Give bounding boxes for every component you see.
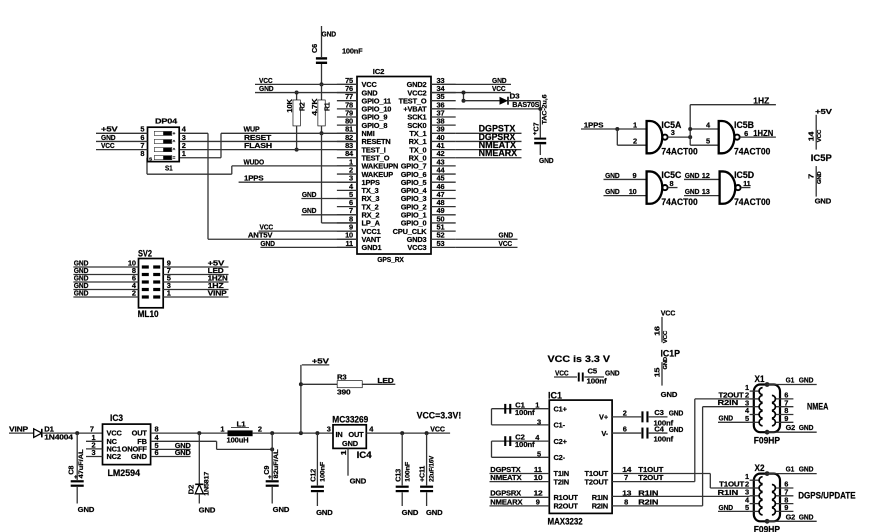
IC4 pin name IN — [336, 430, 343, 439]
svg-text:74ACT00: 74ACT00 — [734, 197, 770, 207]
svg-text:100nF: 100nF — [342, 47, 363, 56]
diode D3 — [500, 97, 509, 105]
wire/net NMEARX from IC2 pin 42 — [456, 148, 522, 158]
junction C13 tap — [400, 431, 404, 435]
svg-text:14: 14 — [806, 131, 815, 142]
pin number 14 (IC5P) — [806, 131, 815, 142]
svg-text:IC2: IC2 — [373, 67, 385, 76]
resistor R1 — [310, 98, 332, 126]
svg-text:NMEARX: NMEARX — [490, 497, 522, 506]
svg-text:S1: S1 — [165, 164, 173, 173]
svg-text:22uF/16V: 22uF/16V — [428, 455, 435, 482]
connector X1 body — [754, 385, 780, 433]
svg-text:GND: GND — [78, 505, 95, 514]
capacitor C5 — [578, 373, 584, 382]
switch S1 (DP04) body — [148, 127, 180, 161]
nand gate IC5D — [720, 171, 741, 203]
value BAS70S (D3) — [512, 100, 539, 109]
wire C1 loop — [492, 409, 550, 425]
label SV2 — [138, 248, 152, 258]
IC4 pin name OUT — [348, 430, 364, 439]
capacitor C7 — [532, 94, 549, 144]
junction VCC/diode (lower) — [462, 99, 466, 103]
wire/net GND to IC5C input 10 — [604, 187, 647, 196]
svg-text:6: 6 — [623, 424, 627, 433]
wire R2 bottom to FLASH net — [296, 126, 298, 150]
pin number 9 (IC5C) — [633, 171, 637, 180]
svg-text:VCC: VCC — [817, 129, 823, 142]
wire/net NMEATX to IC1 pin 10 — [490, 473, 550, 482]
capacitor C6 — [310, 44, 327, 64]
value 74ACT00 (IC5C) — [661, 197, 697, 207]
wire/net GND to X2 pin 5 — [718, 503, 750, 512]
svg-text:100uH: 100uH — [227, 436, 249, 445]
svg-text:9: 9 — [633, 171, 637, 180]
wire output node to IC5B input 4 — [690, 128, 719, 130]
wire/net +5V to DP04 pin 5 — [96, 125, 148, 134]
svg-text:L1: L1 — [237, 419, 246, 428]
capacitor C12 — [309, 462, 327, 492]
pin name GND (IC5P) — [817, 171, 823, 184]
wire/net T1OUT from IC1 pin 14 — [612, 465, 710, 474]
svg-text:C9: C9 — [262, 466, 271, 475]
X2 left contacts — [759, 477, 763, 515]
svg-text:X2: X2 — [755, 463, 765, 473]
wire/net 1PPS to IC2 pin 3 — [239, 174, 357, 183]
svg-text:R2IN: R2IN — [718, 398, 739, 407]
wire/net R2IN from IC1 pin 8 — [612, 497, 703, 506]
wire/net GND to SV2 pin 6 — [73, 273, 138, 282]
resistor R2 — [285, 98, 307, 125]
svg-text:LED: LED — [377, 376, 394, 385]
svg-text:GND: GND — [322, 30, 337, 39]
IC1 pin name T2OUT — [585, 477, 609, 486]
value 100nf (C2) — [515, 440, 535, 449]
wire C12 branch — [316, 433, 318, 485]
X1 shield pin G1 to GND — [765, 376, 817, 387]
wire/net RESET to IC2 pin 82 — [179, 133, 357, 142]
wire/net VCC to IC2 pin 75 — [255, 76, 357, 85]
ground GND (IC4) — [350, 476, 367, 485]
svg-text:GND: GND — [669, 409, 684, 418]
wire/net WUDO to IC2 pin 1 — [232, 157, 357, 166]
svg-text:X1: X1 — [755, 374, 765, 384]
svg-text:9: 9 — [784, 414, 788, 423]
svg-text:GND: GND — [799, 376, 814, 385]
label IC2 — [373, 67, 385, 76]
svg-text:100nf: 100nf — [587, 377, 608, 386]
IC1 pin name C1+ — [554, 404, 568, 413]
wire/net GND to IC2 pin 5 — [301, 190, 357, 199]
svg-text:2: 2 — [623, 408, 627, 417]
svg-text:+5V: +5V — [815, 107, 832, 116]
svg-text:3: 3 — [327, 425, 331, 434]
wire C11 branch — [426, 433, 428, 485]
junction VCC/diode (upper) — [462, 91, 466, 95]
ground GND (IC5P) — [815, 196, 832, 205]
value 74ACT00 (IC5B) — [734, 146, 770, 156]
svg-text:74ACT00: 74ACT00 — [734, 146, 770, 156]
svg-text:10K: 10K — [285, 98, 294, 112]
IC3 pin name ONOFF — [122, 445, 148, 454]
value 100nf (C1) — [515, 408, 535, 417]
wire D2 to ground — [198, 494, 200, 504]
capacitor C2 — [504, 436, 511, 446]
svg-text:8: 8 — [624, 497, 628, 506]
connector X2 body — [754, 474, 780, 522]
label VCC=3.3V! — [417, 411, 462, 421]
junction C9 tap — [270, 431, 274, 435]
capacitor C9 — [262, 449, 280, 486]
svg-text:9: 9 — [536, 497, 540, 506]
svg-text:13: 13 — [702, 187, 710, 196]
svg-text:R2: R2 — [298, 102, 307, 111]
X1 left contacts — [759, 388, 763, 426]
svg-text:+: + — [268, 475, 272, 481]
wire IC1P pin 15 to ground — [661, 362, 663, 386]
svg-text:11: 11 — [345, 239, 353, 248]
svg-text:74ACT00: 74ACT00 — [661, 197, 697, 207]
wire/net GND to SV2 pin 8 — [73, 266, 138, 275]
IC2 right pin stubs — [431, 84, 456, 247]
pin number 3 (IC5A output) — [671, 128, 675, 137]
IC2 right pin numbers 33-53 — [437, 76, 446, 248]
wire T2OUT up to X1 — [694, 399, 696, 482]
wire/net 1HZN from IC5B output — [740, 128, 776, 138]
pin number 1 (IC3) — [86, 433, 103, 442]
junction at IC5B input 4 row — [688, 127, 692, 131]
svg-text:C8: C8 — [67, 466, 76, 475]
junction D2 tap — [197, 431, 201, 435]
wire/net GND to IC2 pin 11 — [260, 239, 357, 248]
pin number 7 (IC3) — [90, 425, 94, 434]
pin number 3 (IC4) — [327, 425, 331, 434]
wire/net GND IC3 pin 5 — [151, 441, 192, 450]
svg-text:3: 3 — [537, 417, 541, 426]
switch S1 elements — [149, 131, 176, 163]
label IC5A — [661, 120, 681, 130]
svg-text:1: 1 — [182, 149, 186, 158]
wire/net 1HZN from SV2 pin 5 — [163, 273, 228, 282]
svg-text:G1: G1 — [786, 376, 795, 385]
svg-text:R1: R1 — [323, 102, 332, 111]
value 1N4004 (D1) — [44, 433, 74, 442]
pin number 3 (IC1) — [537, 417, 541, 426]
junction FB/output — [270, 447, 274, 451]
wire/net R1IN from IC1 pin 13 — [612, 489, 750, 498]
label X2 — [755, 463, 765, 473]
svg-text:100nf: 100nf — [515, 408, 535, 417]
label ML10 — [138, 309, 159, 319]
note VCC is 3.3 V — [548, 354, 611, 364]
capacitor C3 — [641, 411, 648, 422]
svg-text:GND: GND — [661, 390, 678, 399]
DP04 right pin numbers — [182, 125, 187, 158]
power +5V (rail) — [302, 356, 330, 365]
svg-text:82uF/AL: 82uF/AL — [273, 449, 280, 478]
ground GND (below C7) — [539, 156, 554, 165]
IC1 pin name R1IN — [592, 493, 608, 502]
wire/net GND to X1 pin 5 — [718, 414, 750, 423]
svg-text:3: 3 — [92, 448, 96, 457]
svg-text:VCC: VCC — [430, 425, 445, 434]
svg-text:MAX3232: MAX3232 — [548, 517, 583, 527]
ground GND (C8) — [78, 505, 95, 514]
svg-text:+C11: +C11 — [418, 466, 427, 482]
svg-text:1: 1 — [535, 401, 539, 410]
pin number 4 (IC4) — [369, 425, 374, 434]
value MAX3232 (IC1) — [548, 517, 583, 527]
wire C8 to ground — [76, 487, 78, 504]
label C2 — [515, 433, 525, 442]
wire/net C4 to GND — [649, 425, 684, 434]
X1 shield pin G2 to GND — [765, 423, 817, 434]
wire/net VCC to DP04 pin 7 — [96, 141, 148, 150]
wire C8 branch — [76, 433, 78, 480]
svg-text:5: 5 — [745, 503, 749, 512]
pin number 16 (IC1P) — [652, 326, 661, 336]
IC1 pin name T1IN — [554, 469, 569, 478]
pin name VCC (IC5P) — [817, 129, 823, 142]
IC3 pin name VCC — [107, 429, 123, 438]
svg-text:C7: C7 — [532, 123, 541, 132]
junction C12 tap — [315, 431, 319, 435]
wire/net DGPSTX from IC2 pin 39 — [456, 124, 522, 134]
wire IC3 FB jog — [151, 441, 273, 449]
wire IC2 pin 36 to +VBAT node — [431, 108, 540, 110]
svg-text:IN: IN — [336, 430, 343, 439]
wire to R3 — [301, 383, 338, 385]
label IC5C — [661, 170, 681, 180]
svg-text:DGPS/UPDATE: DGPS/UPDATE — [798, 490, 855, 500]
pin number 1 (L1) — [220, 424, 224, 433]
svg-text:GND: GND — [685, 187, 700, 196]
svg-text:GND: GND — [605, 368, 620, 377]
svg-text:F09HP: F09HP — [754, 525, 780, 532]
IC4 pin name GND — [342, 439, 359, 448]
wire 1PPS to IC5A input 2 — [617, 129, 646, 145]
pin number 7 (IC5P) — [806, 174, 815, 179]
svg-text:R2IN: R2IN — [638, 497, 658, 506]
value 100uH (L1) — [227, 436, 249, 445]
svg-text:VINP: VINP — [208, 288, 227, 297]
svg-text:GND: GND — [539, 156, 554, 165]
wire/net WUP to IC2 pin 81 — [221, 125, 357, 134]
svg-text:GND: GND — [350, 476, 367, 485]
wire/net T1OUT to X2 pin 2 — [710, 479, 749, 488]
pin number 8 (IC3) — [155, 425, 159, 434]
svg-text:100nF: 100nF — [320, 462, 327, 482]
label IC1 — [548, 390, 562, 400]
svg-text:390: 390 — [337, 387, 351, 396]
value F09HP (X2) — [754, 525, 780, 532]
svg-text:2: 2 — [633, 137, 637, 146]
svg-text:F09HP: F09HP — [754, 436, 780, 446]
svg-text:^: ^ — [173, 147, 176, 152]
wire/net GND from IC2 pin 52 — [456, 231, 518, 240]
svg-text:GND: GND — [605, 171, 620, 180]
wire/net LED from SV2 pin 7 — [163, 266, 228, 275]
junction C11 tap — [425, 431, 429, 435]
wire R2IN up to X1 — [702, 407, 704, 506]
wire C2 loop — [492, 441, 550, 457]
svg-text:DP04: DP04 — [155, 117, 178, 126]
label X1 — [755, 374, 765, 384]
label GPS_RX — [377, 255, 404, 264]
X2 shield pin G1 to GND — [765, 465, 817, 476]
svg-text:NC2: NC2 — [107, 452, 121, 461]
wire/net VINP from SV2 pin 1 — [163, 288, 228, 297]
label DP04 — [155, 117, 178, 126]
svg-text:ML10: ML10 — [138, 309, 159, 319]
X2 right contacts — [772, 485, 776, 515]
ground GND (C11) — [426, 508, 443, 517]
value 74ACT00 (IC5D) — [734, 197, 770, 207]
junction R2/GND — [295, 91, 299, 95]
wire IC5A output — [668, 136, 691, 138]
svg-text:C5: C5 — [588, 367, 598, 376]
note NMEA — [807, 401, 829, 411]
wire/net LED from R3 — [362, 376, 395, 385]
svg-text:10: 10 — [629, 187, 637, 196]
svg-text:GND: GND — [302, 206, 317, 215]
svg-text:V-: V- — [601, 429, 608, 438]
wire to D3 anode — [464, 100, 500, 102]
junction +VBAT node — [538, 107, 542, 111]
wire/net VCC to IC2 pin 9 — [259, 223, 357, 232]
svg-text:74ACT00: 74ACT00 — [661, 146, 697, 156]
inductor L1 — [228, 419, 253, 436]
wire/net GND to DP04 pin 6 — [96, 133, 148, 142]
svg-text:+5V: +5V — [312, 356, 329, 365]
value 390 (R3) — [337, 387, 351, 396]
junction 1PPS split — [615, 127, 619, 131]
svg-text:GND: GND — [426, 508, 443, 517]
label C4 — [654, 424, 665, 433]
svg-text:TAC-2u,6: TAC-2u,6 — [541, 94, 548, 125]
svg-text:11: 11 — [743, 179, 751, 188]
svg-text:1N5817: 1N5817 — [203, 471, 210, 496]
wire C13 branch — [401, 433, 403, 485]
wire/net GND to IC2 pin 7 — [301, 206, 357, 215]
SV2 contact pads — [142, 265, 160, 298]
wire/net T2OUT from IC1 pin 7 — [612, 473, 695, 482]
svg-text:100nf: 100nf — [515, 440, 535, 449]
wire C9 branch — [271, 433, 273, 480]
value 100nf (C3) — [654, 418, 674, 427]
svg-text:GND: GND — [815, 196, 832, 205]
pin number 10 (IC5C) — [629, 187, 637, 196]
wire/net GND to SV2 pin 10 — [73, 258, 138, 267]
svg-text:1N4004: 1N4004 — [44, 433, 74, 442]
IC3 pin name GND — [131, 452, 148, 461]
svg-text:IC5P: IC5P — [811, 153, 832, 163]
wire/net GND to IC5D input 13 — [684, 187, 720, 196]
svg-text:VCC: VCC — [661, 309, 676, 318]
wire C6 bottom to VCC rail — [321, 64, 323, 84]
diode D1 — [34, 429, 42, 438]
value LM2594 (IC3) — [108, 468, 141, 478]
wire/net DGPSTX to IC1 pin 11 — [490, 465, 550, 474]
wire D2 branch — [198, 433, 200, 484]
label IC1P — [661, 349, 681, 359]
IC3 pin name NC2 — [107, 452, 121, 461]
label C5 — [588, 367, 598, 376]
svg-text:1HZ: 1HZ — [753, 95, 769, 105]
capacitor C4 — [641, 428, 648, 439]
wire DP04 pin 8 to WUDO — [147, 158, 232, 174]
nand gate IC5B — [719, 121, 740, 153]
svg-text:G2: G2 — [786, 423, 796, 432]
svg-text:GND: GND — [605, 187, 620, 196]
wire T1OUT down to X2 — [709, 474, 711, 489]
IC3 pin name FB — [137, 437, 147, 446]
svg-text:VCC3: VCC3 — [407, 243, 426, 252]
svg-text:GND: GND — [199, 505, 216, 514]
wire/net DGPSRX to IC1 pin 12 — [490, 489, 550, 498]
svg-text:C3: C3 — [654, 408, 664, 417]
wire C9 to ground — [271, 487, 273, 504]
svg-text:2: 2 — [258, 425, 262, 434]
junction +5V branch — [299, 431, 303, 435]
svg-text:C1-: C1- — [554, 421, 566, 430]
value MC33269 (IC4) — [332, 414, 368, 424]
svg-text:VCC: VCC — [555, 368, 569, 377]
svg-text:5: 5 — [537, 450, 541, 459]
svg-text:VINP: VINP — [9, 425, 28, 434]
svg-text:5: 5 — [706, 137, 710, 146]
wire/net VCC to C5 — [554, 368, 577, 377]
svg-text:VCC: VCC — [492, 84, 506, 93]
svg-text:6: 6 — [155, 448, 159, 457]
label IC4 — [357, 450, 372, 460]
svg-text:VCC: VCC — [663, 330, 669, 343]
wire output node to IC5B input 5 — [690, 137, 719, 145]
IC1 pin name C1- — [554, 421, 566, 430]
label C1 — [515, 400, 525, 409]
net label R1IN at X2 pin 3 — [718, 488, 739, 497]
label S1 — [165, 164, 173, 173]
wire/net 1PPS to IC5A input 1 — [581, 120, 647, 129]
value 100nf (C4) — [654, 434, 674, 443]
capacitor C1 — [504, 404, 511, 414]
power +5V (IC5P pin 14) — [815, 107, 832, 150]
pin number 5 (IC5B) — [706, 137, 710, 146]
wire/net GND to IC2 pin 76 — [255, 84, 357, 93]
IC1 pin name V+ — [599, 413, 609, 422]
X2 shield pin G2 to GND — [765, 512, 817, 523]
ground GND (C12) — [316, 508, 333, 517]
svg-text:1: 1 — [220, 424, 224, 433]
svg-text:GND: GND — [402, 508, 419, 517]
svg-text:GND: GND — [302, 190, 317, 199]
nand gate IC5C — [647, 171, 668, 203]
junction R2/FLASH — [295, 148, 299, 152]
wire VCC row down to diode row — [463, 93, 465, 101]
resistor R3 — [337, 373, 362, 388]
wire/net T2OUT to X1 pin 2 — [695, 390, 750, 399]
wire C11 to ground — [426, 492, 428, 506]
svg-text:VCC: VCC — [499, 239, 513, 248]
X2 left pins 1-5 — [745, 472, 759, 512]
pin number 5 (IC1) — [537, 450, 541, 459]
nand gate IC5A — [647, 121, 668, 153]
svg-text:GND1: GND1 — [362, 243, 382, 252]
svg-text:1PPS: 1PPS — [584, 120, 604, 129]
svg-text:1: 1 — [633, 120, 637, 129]
IC2 left pin stubs — [337, 84, 357, 247]
svg-text:2: 2 — [132, 288, 136, 297]
